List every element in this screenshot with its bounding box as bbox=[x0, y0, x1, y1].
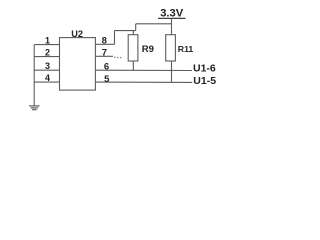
svg-text:U1-6: U1-6 bbox=[193, 63, 216, 75]
svg-text:2: 2 bbox=[45, 48, 50, 58]
svg-text:U2: U2 bbox=[71, 29, 83, 39]
svg-text:7: 7 bbox=[102, 48, 107, 59]
wire: pin 4 bbox=[34, 81, 59, 83]
svg-text:4: 4 bbox=[45, 73, 50, 83]
wire: rail lower segment bbox=[115, 30, 136, 32]
svg-text:1: 1 bbox=[45, 36, 50, 46]
wire: pin 8 bbox=[95, 43, 114, 45]
svg-text:8: 8 bbox=[102, 35, 107, 46]
wire: pin 1 bbox=[34, 44, 59, 46]
wire: rail step bbox=[135, 24, 137, 31]
wire: pin 5 to U1-5 bbox=[95, 81, 192, 83]
wire: rail upper segment bbox=[136, 23, 172, 25]
svg-text:R11: R11 bbox=[178, 44, 194, 54]
resistor R11 bbox=[166, 35, 176, 61]
svg-text:5: 5 bbox=[104, 74, 110, 85]
wire: pin 8 riser bbox=[114, 31, 116, 45]
svg-text:3.3V: 3.3V bbox=[160, 8, 184, 20]
no-connect dots pin 7 bbox=[114, 56, 122, 58]
wire: pin 7 stub bbox=[95, 55, 113, 57]
svg-text:R9: R9 bbox=[142, 44, 154, 55]
wire: pin 3 bbox=[34, 69, 59, 71]
op-amp U2 box bbox=[60, 38, 96, 91]
wire: left bus vertical bbox=[33, 45, 35, 106]
ground bbox=[29, 106, 40, 110]
svg-text:3: 3 bbox=[45, 61, 50, 71]
wire: pin 2 bbox=[34, 56, 59, 58]
power bar 3.3V bbox=[158, 17, 186, 19]
svg-text:6: 6 bbox=[104, 62, 109, 73]
svg-text:U1-5: U1-5 bbox=[193, 75, 216, 87]
wire: 3.3V vertical drop bbox=[171, 19, 173, 35]
wire: pin 6 to U1-6 bbox=[95, 69, 192, 71]
resistor R9 bbox=[132, 31, 134, 35]
